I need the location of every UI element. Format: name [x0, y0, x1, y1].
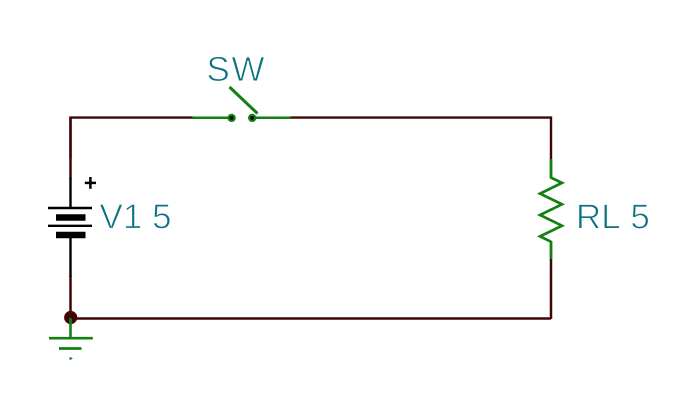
- wire bottom horizontal: [71, 317, 552, 320]
- wire right vertical lower: [550, 259, 553, 320]
- label V1 5: [100, 204, 170, 228]
- battery top lead: [69, 178, 71, 207]
- resistor zigzag: [540, 178, 562, 242]
- wire top-right horizontal: [289, 118, 551, 160]
- wire switch left green segment: [192, 116, 228, 119]
- ground arrow tip: [70, 357, 73, 360]
- battery bottom lead: [69, 238, 71, 277]
- wire battery bottom to ground node: [69, 276, 72, 319]
- resistor top lead: [550, 159, 553, 179]
- switch terminal left: [227, 114, 235, 122]
- battery plus sign: [85, 182, 96, 185]
- switch SW: [192, 87, 291, 118]
- switch lever: [230, 87, 258, 114]
- label SW: [208, 57, 264, 82]
- resistor RL: [540, 159, 562, 259]
- battery plate thin 1: [48, 207, 92, 209]
- label RL 5: [579, 204, 649, 228]
- wire left vertical (battery top lead connection): [69, 117, 72, 180]
- ground: [49, 318, 93, 360]
- switch terminal right: [248, 114, 256, 122]
- battery plate thick 1: [56, 214, 86, 220]
- wire switch right green segment: [255, 116, 291, 119]
- resistor bottom lead: [550, 241, 553, 259]
- battery plate thin 2: [48, 225, 92, 227]
- battery V1: [48, 177, 96, 277]
- node ground junction dot: [64, 311, 77, 324]
- wire top-left horizontal: [71, 118, 195, 158]
- battery plate thick 2: [56, 232, 86, 238]
